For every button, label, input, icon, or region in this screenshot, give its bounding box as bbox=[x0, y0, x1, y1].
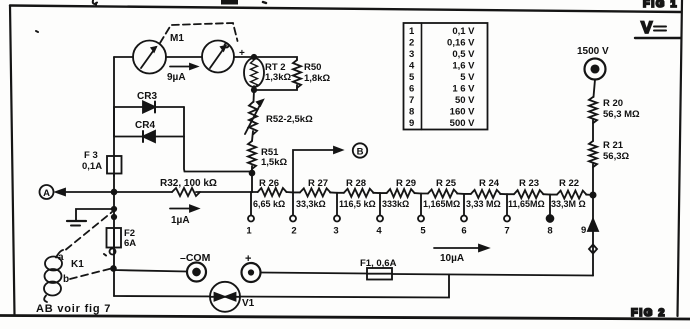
svg-text:5: 5 bbox=[409, 72, 415, 83]
frame bottom rule bbox=[0, 316, 690, 320]
svg-text:R50: R50 bbox=[304, 62, 321, 73]
svg-text:R 21: R 21 bbox=[603, 140, 624, 151]
range table box bbox=[404, 23, 488, 130]
right vertical wire bbox=[592, 164, 594, 276]
svg-text:1: 1 bbox=[409, 26, 415, 37]
COM terminal bbox=[180, 252, 211, 282]
svg-text:1500 V: 1500 V bbox=[577, 46, 609, 57]
node 7 bbox=[504, 194, 510, 236]
node 9 arrow and label bbox=[581, 219, 598, 236]
svg-text:50 V: 50 V bbox=[455, 95, 475, 106]
node 8 bbox=[547, 195, 554, 237]
wire meter to node, + polarity bbox=[234, 56, 254, 58]
svg-text:1: 1 bbox=[246, 226, 252, 237]
fuse F3 bbox=[82, 150, 122, 176]
resistor R51 bbox=[248, 141, 256, 169]
diode branch verticals bbox=[114, 107, 252, 172]
svg-text:3: 3 bbox=[409, 49, 414, 60]
svg-text:R 22: R 22 bbox=[559, 178, 579, 189]
resistor R23 bbox=[507, 178, 550, 209]
node A with arrow bbox=[40, 185, 115, 199]
wire R51 to bus node 1 bbox=[251, 166, 253, 192]
wire to R52 bbox=[253, 90, 256, 102]
R51 value label bbox=[261, 147, 287, 168]
resistor R28 bbox=[337, 178, 380, 209]
resistor R29 bbox=[380, 178, 421, 209]
svg-text:+: + bbox=[239, 48, 245, 59]
meter M1 left movement bbox=[133, 41, 166, 74]
resistor R25 bbox=[421, 178, 464, 209]
fuse F2 bbox=[107, 228, 137, 249]
svg-text:CR3: CR3 bbox=[137, 91, 157, 102]
rheostat R52 bbox=[245, 100, 263, 134]
svg-text:6: 6 bbox=[409, 84, 414, 95]
resistor R32 on bus bbox=[160, 178, 217, 196]
meter M1 right movement bbox=[202, 41, 234, 73]
relay linkage b (dashed) bbox=[70, 269, 111, 280]
svg-text:500 V: 500 V bbox=[450, 118, 475, 129]
svg-text:5 V: 5 V bbox=[460, 72, 475, 83]
10 uA current arrow bbox=[434, 245, 488, 264]
svg-text:CR4: CR4 bbox=[135, 120, 155, 131]
svg-text:R 29: R 29 bbox=[396, 178, 416, 189]
svg-text:4: 4 bbox=[409, 61, 415, 72]
svg-text:a: a bbox=[58, 252, 64, 263]
svg-text:F 3: F 3 bbox=[84, 150, 98, 161]
node 3 bbox=[333, 193, 340, 237]
wire left rail to meter M1 bbox=[114, 56, 133, 58]
FIG 1 label (clipped) bbox=[643, 0, 678, 10]
range table rows bbox=[409, 26, 475, 129]
M1 mechanical linkage (dashed) bbox=[160, 23, 238, 43]
left rail vertical bbox=[113, 57, 115, 296]
svg-text:7: 7 bbox=[409, 95, 414, 106]
svg-text:1,165MΩ: 1,165MΩ bbox=[423, 199, 460, 209]
node bottom of RT2 bbox=[252, 88, 256, 92]
lower rail through V1 bbox=[114, 275, 449, 298]
FIG 2 label bbox=[631, 307, 666, 319]
svg-text:R 27: R 27 bbox=[308, 178, 328, 189]
svg-text:V1: V1 bbox=[242, 298, 255, 309]
wire 1500V to R20 bbox=[594, 80, 596, 98]
svg-text:FIG 1: FIG 1 bbox=[643, 0, 678, 10]
svg-text:7: 7 bbox=[504, 226, 509, 237]
junction ground stub bbox=[112, 207, 116, 211]
relay K1 coil bbox=[44, 250, 84, 302]
node 6 bbox=[461, 194, 467, 237]
diode CR3 bbox=[114, 91, 184, 113]
resistor R50 bbox=[293, 60, 301, 88]
svg-text:0,1A: 0,1A bbox=[82, 161, 102, 172]
svg-text:1,5kΩ: 1,5kΩ bbox=[261, 157, 287, 168]
svg-text:1 6 V: 1 6 V bbox=[452, 84, 475, 95]
svg-text:b: b bbox=[63, 274, 69, 285]
resistor R27 bbox=[293, 178, 337, 209]
svg-text:F1, 0,6A: F1, 0,6A bbox=[360, 258, 397, 269]
svg-text:160 V: 160 V bbox=[450, 107, 475, 118]
resistor R21 bbox=[589, 140, 629, 167]
svg-text:R52-2,5kΩ: R52-2,5kΩ bbox=[266, 114, 313, 125]
svg-text:56,3Ω: 56,3Ω bbox=[603, 151, 629, 162]
wire to COM terminal bbox=[114, 269, 188, 272]
svg-text:B: B bbox=[357, 147, 364, 158]
svg-text:K1: K1 bbox=[71, 259, 84, 270]
svg-text:1,6 V: 1,6 V bbox=[452, 61, 475, 72]
svg-text:AB voir fig 7: AB voir fig 7 bbox=[36, 303, 111, 315]
thermistor RT2 bbox=[244, 58, 264, 88]
svg-text:2: 2 bbox=[409, 38, 414, 49]
1500 V terminal bbox=[577, 46, 609, 80]
node 2 bbox=[290, 192, 297, 236]
svg-text:8: 8 bbox=[409, 107, 414, 118]
svg-text:R 23: R 23 bbox=[519, 178, 539, 189]
diamond junction mark bbox=[589, 245, 597, 254]
svg-text:R 26: R 26 bbox=[259, 178, 279, 189]
svg-text:3,33 MΩ: 3,33 MΩ bbox=[466, 199, 501, 209]
junction above F2 bbox=[112, 215, 116, 219]
svg-text:1,3kΩ: 1,3kΩ bbox=[265, 72, 291, 83]
svg-text:R 25: R 25 bbox=[436, 178, 457, 189]
svg-text:6,65 kΩ: 6,65 kΩ bbox=[253, 199, 285, 209]
1 uA current arrow bbox=[170, 206, 198, 227]
svg-text:4: 4 bbox=[376, 226, 382, 237]
node 5 bbox=[418, 194, 426, 237]
M1 label bbox=[170, 33, 184, 44]
svg-text:5: 5 bbox=[420, 226, 426, 237]
svg-text:1µA: 1µA bbox=[171, 215, 190, 226]
node 1 bbox=[246, 192, 254, 237]
svg-text:11,65MΩ: 11,65MΩ bbox=[508, 199, 545, 209]
stray scan marks top bbox=[93, 1, 97, 7]
svg-text:1,8kΩ: 1,8kΩ bbox=[304, 73, 330, 84]
node top of RT2 bbox=[252, 55, 256, 59]
svg-text:8: 8 bbox=[547, 226, 552, 237]
svg-text:R 28: R 28 bbox=[346, 178, 366, 189]
svg-text:A: A bbox=[43, 188, 50, 199]
svg-text:M1: M1 bbox=[170, 33, 184, 44]
svg-text:6: 6 bbox=[461, 226, 466, 237]
R52 value label bbox=[266, 114, 313, 125]
svg-text:3: 3 bbox=[333, 226, 338, 237]
resistor R20 bbox=[589, 97, 640, 123]
resistor R24 bbox=[464, 178, 507, 209]
wire R52 to R51 bbox=[252, 131, 253, 141]
RT2/R50 parallel rails bbox=[254, 57, 297, 90]
junction bus / left rail bbox=[112, 190, 117, 195]
node 4 bbox=[376, 193, 383, 236]
svg-text:10µA: 10µA bbox=[440, 253, 464, 264]
svg-text:6A: 6A bbox=[124, 238, 136, 249]
V dc symbol bbox=[635, 18, 681, 38]
plus terminal bbox=[242, 253, 261, 282]
svg-text:9µA: 9µA bbox=[167, 72, 186, 83]
svg-text:R32, 100 kΩ: R32, 100 kΩ bbox=[160, 178, 217, 189]
AB voir fig 7 label bbox=[36, 303, 111, 315]
svg-text:9: 9 bbox=[409, 118, 414, 129]
svg-text:116,5 kΩ: 116,5 kΩ bbox=[339, 199, 376, 209]
frame left border bbox=[10, 6, 15, 316]
ground bbox=[67, 209, 114, 226]
surge arrester V1 bbox=[210, 282, 255, 312]
R50 value label bbox=[304, 62, 330, 84]
9 uA current arrow bbox=[167, 64, 197, 83]
connector B bbox=[353, 143, 367, 157]
svg-text:0,1 V: 0,1 V bbox=[452, 26, 475, 37]
svg-text:FIG 2: FIG 2 bbox=[631, 307, 666, 319]
RT2 value label bbox=[265, 62, 291, 83]
svg-text:–COM: –COM bbox=[180, 252, 211, 264]
node 9 junction bbox=[590, 192, 595, 197]
svg-text:0,16 V: 0,16 V bbox=[447, 38, 475, 49]
fuse holder terminal bbox=[110, 249, 116, 255]
svg-text:9: 9 bbox=[581, 225, 586, 236]
resistor R26 bbox=[251, 178, 293, 209]
frame right border bbox=[678, 0, 683, 316]
upper rail from plus terminal bbox=[261, 273, 594, 276]
junction COM takeoff bbox=[111, 266, 116, 271]
frame top rule bbox=[10, 6, 681, 13]
svg-text:+: + bbox=[245, 253, 251, 265]
svg-text:R 24: R 24 bbox=[479, 178, 500, 189]
svg-text:56,3 MΩ: 56,3 MΩ bbox=[603, 109, 640, 120]
svg-text:V: V bbox=[641, 18, 653, 37]
fuse F1 bbox=[360, 258, 397, 280]
svg-text:333kΩ: 333kΩ bbox=[382, 199, 409, 209]
svg-text:33,3M Ω: 33,3M Ω bbox=[551, 199, 586, 209]
wire between meter movements bbox=[166, 56, 202, 58]
svg-text:2: 2 bbox=[291, 226, 296, 237]
svg-text:0,5 V: 0,5 V bbox=[452, 49, 475, 60]
relay linkage a (dashed) bbox=[66, 212, 112, 250]
resistor R22 bbox=[550, 178, 593, 209]
diode CR4 bbox=[114, 120, 184, 142]
bus left segment bbox=[114, 191, 252, 193]
junction R51 / diode return bbox=[250, 171, 255, 176]
node B branch wire bbox=[293, 147, 342, 192]
svg-text:R 20: R 20 bbox=[603, 98, 623, 109]
svg-text:33,3kΩ: 33,3kΩ bbox=[296, 199, 326, 209]
wire R20 to R21 bbox=[592, 120, 594, 141]
